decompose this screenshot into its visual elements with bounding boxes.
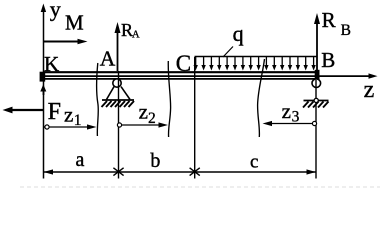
- beam middle line / z-axis: [44, 75, 374, 77]
- support B ground junction circle: [314, 98, 318, 102]
- support A ground line: [102, 99, 134, 101]
- extension line at B: [315, 80, 317, 179]
- beam left end cap K: [40, 72, 46, 82]
- z-axis arrowhead: [369, 73, 378, 78]
- svg-text:2: 2: [148, 110, 156, 127]
- svg-text:3: 3: [292, 109, 300, 126]
- svg-text:A: A: [100, 47, 116, 71]
- section mark z2: [168, 61, 170, 137]
- q leader line: [223, 47, 233, 58]
- svg-text:z: z: [139, 99, 148, 123]
- svg-text:c: c: [250, 152, 258, 173]
- extension line at C: [194, 57, 196, 179]
- svg-text:M: M: [65, 11, 84, 35]
- svg-text:b: b: [150, 150, 160, 172]
- extension line at A: [118, 71, 120, 179]
- dimension arrowhead left: [44, 169, 54, 174]
- support B hatching: [303, 102, 329, 108]
- distributed load q top line: [195, 56, 318, 58]
- section mark z3: [258, 59, 265, 137]
- dimension X mark at A: [113, 168, 123, 176]
- y-axis arrowhead: [41, 4, 46, 13]
- svg-text:C: C: [176, 51, 191, 76]
- dimension arrowhead right: [307, 169, 317, 174]
- support B ground line: [304, 100, 329, 102]
- up arrowhead below beam at K: [40, 84, 46, 91]
- svg-text:R: R: [322, 8, 336, 32]
- svg-text:B: B: [321, 48, 335, 72]
- z3 dimension arrow: [267, 123, 316, 125]
- section mark z1: [97, 63, 99, 136]
- moment M arrow: [44, 41, 81, 43]
- reaction R_B arrow: [316, 19, 318, 70]
- reaction R_A arrow: [117, 28, 119, 71]
- z1 dimension arrow: [44, 126, 92, 128]
- support A pin circle: [113, 79, 121, 87]
- svg-text:A: A: [132, 30, 140, 41]
- svg-text:F: F: [48, 99, 61, 125]
- svg-text:1: 1: [74, 112, 82, 129]
- distributed load q arrows: [196, 57, 314, 67]
- force F arrow: [8, 109, 44, 111]
- svg-text:y: y: [50, 0, 61, 22]
- beam right end cap B: [315, 70, 320, 80]
- support A triangle legs: [107, 87, 115, 100]
- svg-text:z: z: [364, 77, 375, 103]
- svg-text:q: q: [233, 21, 244, 46]
- z2 dimension arrow: [119, 124, 164, 126]
- support A hatching: [102, 101, 135, 107]
- svg-text:B: B: [341, 22, 351, 39]
- svg-text:z: z: [64, 102, 73, 126]
- svg-text:z: z: [282, 99, 291, 123]
- svg-text:a: a: [76, 149, 85, 171]
- svg-text:K: K: [44, 52, 59, 76]
- beam top line: [43, 71, 318, 73]
- support B roller circle: [312, 79, 321, 88]
- bottom dimension line: [44, 171, 317, 173]
- y-axis: [43, 10, 45, 179]
- beam bottom line: [43, 78, 318, 80]
- dimension X mark at C: [190, 168, 200, 176]
- faint bottom scan edge: [20, 186, 380, 188]
